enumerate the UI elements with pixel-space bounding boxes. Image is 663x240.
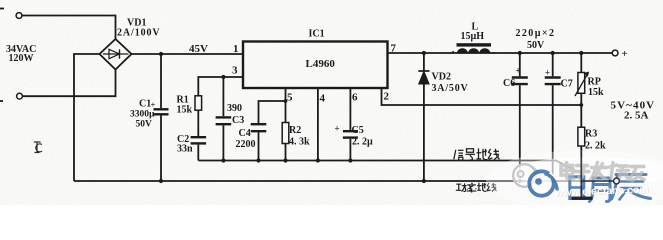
svg-text:VD2: VD2 <box>432 72 451 83</box>
svg-text:C1: C1 <box>139 99 151 110</box>
svg-text:C3: C3 <box>232 115 244 126</box>
svg-text:L4960: L4960 <box>306 58 336 70</box>
svg-text:3A/50V: 3A/50V <box>432 83 469 94</box>
svg-text:1: 1 <box>233 43 239 55</box>
svg-text:C4: C4 <box>239 128 251 139</box>
svg-text:+: + <box>516 66 521 76</box>
svg-text:C5: C5 <box>352 125 364 136</box>
svg-text:RP: RP <box>588 77 601 88</box>
svg-text:C6: C6 <box>503 78 515 89</box>
svg-text:120W: 120W <box>9 53 34 64</box>
svg-text:+: + <box>622 48 628 60</box>
svg-text:15µH: 15µH <box>461 31 485 42</box>
svg-text:3300µ: 3300µ <box>130 110 155 120</box>
svg-text:R2: R2 <box>289 125 301 136</box>
svg-text:33n: 33n <box>177 144 193 155</box>
svg-text:+: + <box>545 68 550 78</box>
svg-text:2A/100V: 2A/100V <box>117 28 161 39</box>
svg-text:7: 7 <box>391 43 397 55</box>
svg-text:+: + <box>151 100 156 110</box>
svg-text:5: 5 <box>287 92 293 104</box>
svg-text:2. 5A: 2. 5A <box>624 110 649 122</box>
svg-text:2200: 2200 <box>236 139 256 150</box>
svg-text:4. 3k: 4. 3k <box>289 137 310 148</box>
svg-text:R3: R3 <box>585 129 597 140</box>
svg-text:390: 390 <box>227 103 242 114</box>
svg-text:2: 2 <box>384 91 390 103</box>
svg-text:45V: 45V <box>189 43 208 55</box>
svg-text:3: 3 <box>232 65 238 77</box>
svg-text:C7: C7 <box>561 79 573 90</box>
svg-text:4: 4 <box>320 93 326 105</box>
svg-text:220µ×2: 220µ×2 <box>516 28 556 39</box>
svg-text:6: 6 <box>352 92 358 104</box>
svg-text:15k: 15k <box>177 105 193 116</box>
svg-text:2. 2k: 2. 2k <box>585 141 606 152</box>
svg-text:50V: 50V <box>136 120 153 130</box>
svg-text:IC1: IC1 <box>309 29 325 40</box>
svg-text:15k: 15k <box>588 87 604 98</box>
svg-text:50V: 50V <box>527 40 545 51</box>
svg-text:2. 2µ: 2. 2µ <box>352 137 373 148</box>
svg-text:+: + <box>335 124 340 134</box>
